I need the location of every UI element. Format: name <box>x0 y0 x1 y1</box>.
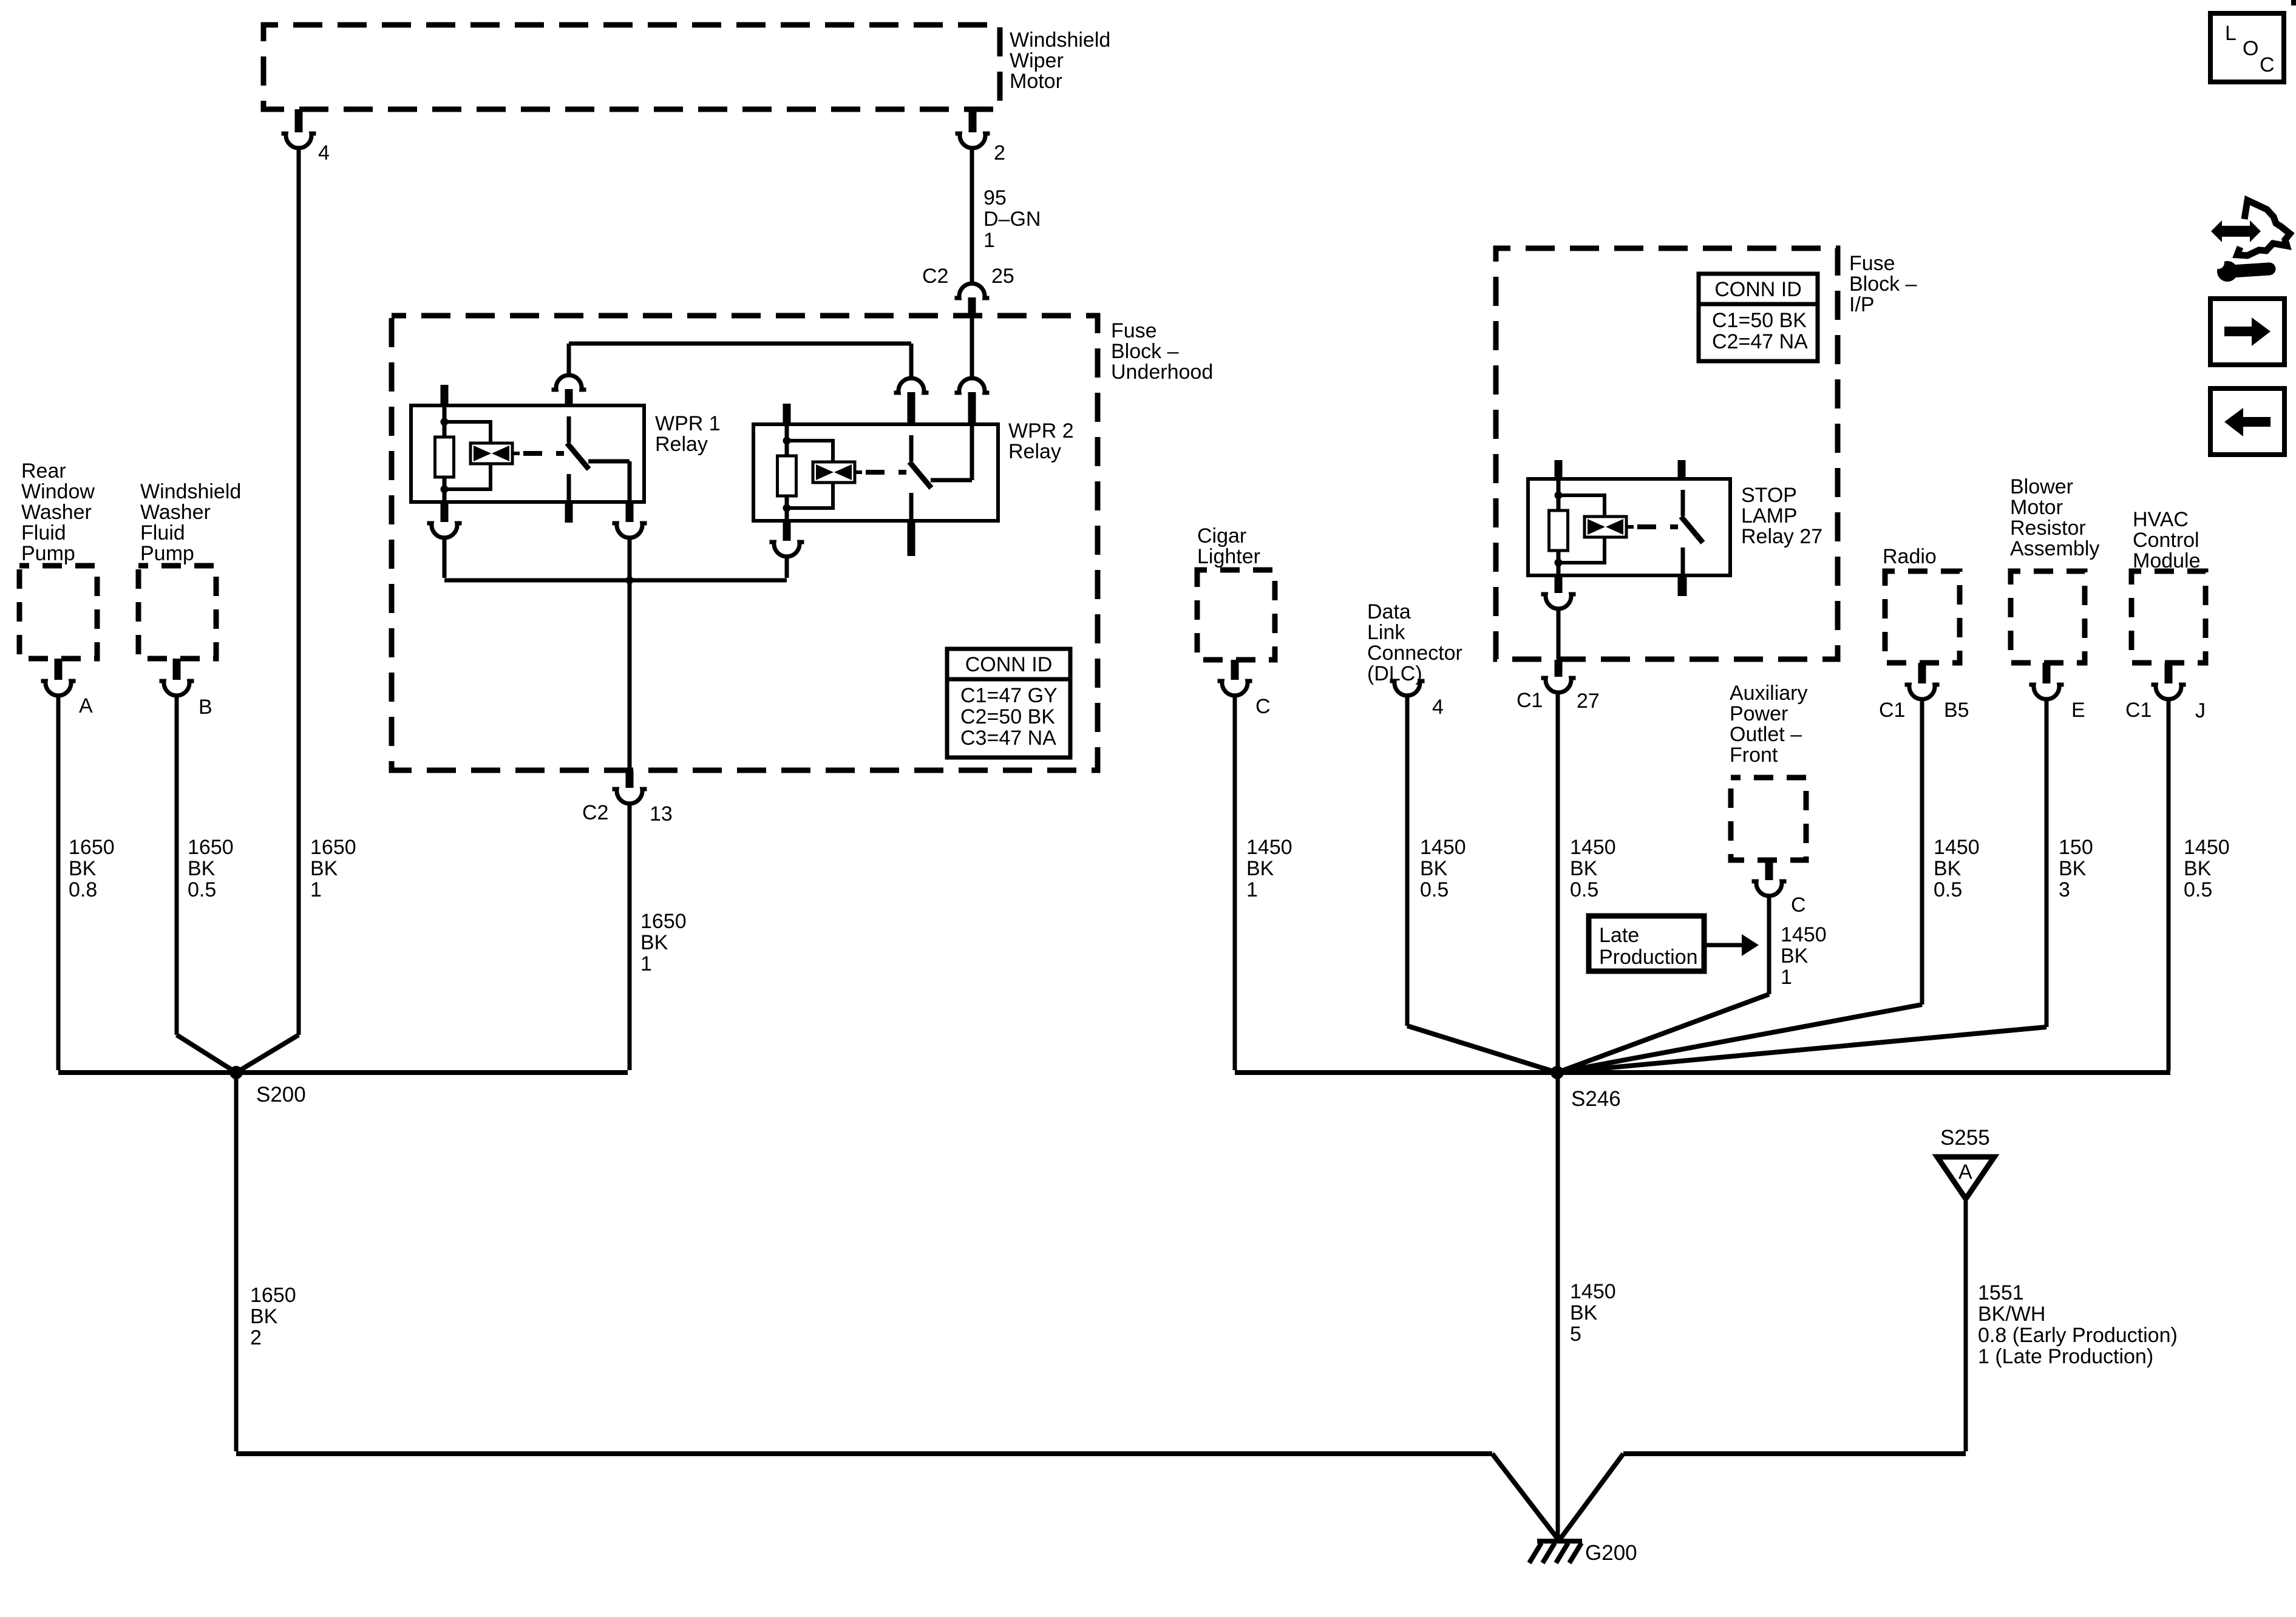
svg-text:BK/WH: BK/WH <box>1978 1303 2045 1326</box>
svg-text:0.8: 0.8 <box>69 878 97 901</box>
svg-text:1450: 1450 <box>1781 923 1827 946</box>
svg-text:Relay 27: Relay 27 <box>1741 525 1822 548</box>
svg-text:27: 27 <box>1577 690 1600 713</box>
svg-text:Outlet –: Outlet – <box>1730 723 1802 746</box>
svg-text:Motor: Motor <box>1010 70 1062 93</box>
svg-text:1450: 1450 <box>1570 1280 1616 1303</box>
svg-text:Relay: Relay <box>655 433 708 456</box>
svg-text:BK: BK <box>1246 857 1274 880</box>
svg-text:CONN ID: CONN ID <box>1714 278 1802 301</box>
svg-text:95: 95 <box>983 186 1007 209</box>
svg-text:Late: Late <box>1599 924 1639 947</box>
svg-text:C1: C1 <box>1879 699 1905 722</box>
svg-text:Link: Link <box>1367 621 1405 644</box>
svg-text:C3=47 NA: C3=47 NA <box>960 727 1056 750</box>
svg-text:1: 1 <box>640 952 652 975</box>
svg-text:Block –: Block – <box>1849 273 1917 296</box>
svg-text:Fluid: Fluid <box>21 521 66 544</box>
svg-text:1: 1 <box>310 878 322 901</box>
svg-text:1450: 1450 <box>1420 836 1466 859</box>
svg-text:Power: Power <box>1730 702 1788 725</box>
svg-text:BK: BK <box>1934 857 1961 880</box>
svg-text:Pump: Pump <box>21 542 75 565</box>
svg-text:Block –: Block – <box>1111 340 1179 363</box>
svg-text:B5: B5 <box>1944 699 1969 722</box>
svg-text:Fluid: Fluid <box>140 521 185 544</box>
svg-text:1650: 1650 <box>310 836 356 859</box>
svg-text:1650: 1650 <box>250 1284 296 1307</box>
svg-text:1650: 1650 <box>69 836 115 859</box>
svg-text:S200: S200 <box>256 1083 306 1107</box>
svg-text:3: 3 <box>2059 878 2070 901</box>
svg-text:Data: Data <box>1367 600 1411 623</box>
svg-text:C: C <box>2260 53 2275 76</box>
svg-text:13: 13 <box>650 802 673 825</box>
svg-text:2: 2 <box>250 1326 262 1349</box>
svg-text:LAMP: LAMP <box>1741 504 1798 527</box>
svg-text:4: 4 <box>1432 696 1444 719</box>
svg-text:L: L <box>2225 22 2237 45</box>
svg-text:E: E <box>2071 699 2085 722</box>
svg-text:Front: Front <box>1730 744 1778 767</box>
svg-text:1: 1 <box>1781 966 1792 989</box>
svg-text:1: 1 <box>983 229 995 252</box>
svg-text:0.5: 0.5 <box>1570 878 1598 901</box>
svg-text:BK: BK <box>1781 944 1809 968</box>
svg-text:5: 5 <box>1570 1323 1581 1346</box>
svg-text:Fuse: Fuse <box>1111 319 1157 342</box>
svg-text:1450: 1450 <box>1570 836 1616 859</box>
svg-text:BK: BK <box>640 931 668 954</box>
svg-text:0.5: 0.5 <box>1420 878 1449 901</box>
svg-text:Auxiliary: Auxiliary <box>1730 682 1807 705</box>
svg-text:Connector: Connector <box>1367 642 1462 665</box>
svg-text:WPR 2: WPR 2 <box>1008 419 1074 442</box>
svg-text:Rear: Rear <box>21 459 66 483</box>
svg-text:BK: BK <box>1570 1301 1598 1324</box>
svg-text:Windshield: Windshield <box>140 480 241 503</box>
svg-text:Wiper: Wiper <box>1010 49 1064 72</box>
svg-text:Underhood: Underhood <box>1111 361 1213 384</box>
svg-text:BK: BK <box>69 857 97 880</box>
svg-text:Window: Window <box>21 480 95 503</box>
svg-text:Washer: Washer <box>21 501 92 524</box>
svg-text:1450: 1450 <box>1934 836 1980 859</box>
svg-text:BK: BK <box>310 857 338 880</box>
svg-text:Relay: Relay <box>1008 440 1061 463</box>
svg-text:1450: 1450 <box>1246 836 1292 859</box>
svg-text:G200: G200 <box>1585 1541 1637 1565</box>
svg-text:(DLC): (DLC) <box>1367 662 1422 685</box>
svg-text:1 (Late Production): 1 (Late Production) <box>1978 1345 2153 1368</box>
svg-text:A: A <box>79 694 93 717</box>
svg-text:1650: 1650 <box>640 910 687 933</box>
svg-text:Blower: Blower <box>2010 475 2073 498</box>
svg-text:0.5: 0.5 <box>2184 878 2212 901</box>
svg-text:0.5: 0.5 <box>188 878 216 901</box>
svg-text:C2: C2 <box>922 265 948 288</box>
svg-text:STOP: STOP <box>1741 484 1797 507</box>
svg-text:A: A <box>1958 1161 1972 1184</box>
svg-text:I/P: I/P <box>1849 293 1875 316</box>
svg-text:BK: BK <box>2059 857 2087 880</box>
svg-text:HVAC: HVAC <box>2133 508 2189 531</box>
svg-text:Motor: Motor <box>2010 496 2063 519</box>
svg-text:C1: C1 <box>2125 699 2152 722</box>
svg-text:Resistor: Resistor <box>2010 517 2086 540</box>
svg-text:C1=50 BK: C1=50 BK <box>1712 309 1807 332</box>
svg-text:BK: BK <box>1420 857 1448 880</box>
svg-text:J: J <box>2195 699 2206 722</box>
svg-text:C2=47 NA: C2=47 NA <box>1712 330 1808 353</box>
svg-text:1450: 1450 <box>2184 836 2230 859</box>
svg-text:C: C <box>1255 695 1271 718</box>
svg-text:CONN ID: CONN ID <box>965 653 1053 676</box>
svg-text:25: 25 <box>991 265 1014 288</box>
svg-text:C2: C2 <box>582 801 608 824</box>
svg-text:Radio: Radio <box>1883 545 1937 568</box>
svg-text:C1: C1 <box>1517 689 1543 712</box>
svg-text:150: 150 <box>2059 836 2093 859</box>
svg-text:0.5: 0.5 <box>1934 878 1962 901</box>
svg-text:0.8 (Early Production): 0.8 (Early Production) <box>1978 1324 2178 1347</box>
svg-text:S255: S255 <box>1940 1126 1990 1150</box>
svg-text:2: 2 <box>994 141 1005 164</box>
svg-text:Lighter: Lighter <box>1197 545 1260 568</box>
svg-text:1650: 1650 <box>188 836 234 859</box>
svg-text:D–GN: D–GN <box>983 208 1041 231</box>
svg-text:S246: S246 <box>1571 1087 1621 1111</box>
svg-text:Windshield: Windshield <box>1010 29 1110 52</box>
svg-text:4: 4 <box>318 141 330 164</box>
svg-text:Production: Production <box>1599 946 1698 969</box>
svg-text:C1=47 GY: C1=47 GY <box>960 684 1058 707</box>
svg-text:BK: BK <box>250 1305 278 1328</box>
svg-text:Pump: Pump <box>140 542 194 565</box>
svg-text:B: B <box>199 696 212 719</box>
svg-text:O: O <box>2243 37 2258 60</box>
svg-text:C2=50 BK: C2=50 BK <box>960 705 1055 728</box>
svg-text:Assembly: Assembly <box>2010 537 2099 560</box>
svg-text:BK: BK <box>188 857 216 880</box>
svg-text:Cigar: Cigar <box>1197 524 1246 547</box>
svg-text:Washer: Washer <box>140 501 211 524</box>
svg-text:1: 1 <box>1246 878 1258 901</box>
svg-text:Control: Control <box>2133 529 2199 552</box>
svg-text:Fuse: Fuse <box>1849 252 1895 275</box>
svg-text:C: C <box>1791 893 1806 917</box>
svg-text:BK: BK <box>1570 857 1598 880</box>
svg-text:1551: 1551 <box>1978 1281 2024 1304</box>
svg-text:WPR 1: WPR 1 <box>655 412 721 435</box>
svg-text:Module: Module <box>2133 549 2201 572</box>
svg-text:BK: BK <box>2184 857 2212 880</box>
